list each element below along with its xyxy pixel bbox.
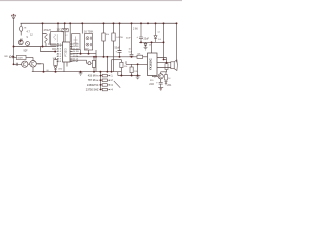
junction (119.5,23.3) — [119, 22, 121, 24]
junction (80.5,71.7) — [80, 71, 82, 73]
svg-text:92F: 92F — [24, 49, 29, 52]
capacitor C8 50uF — [118, 23, 122, 57]
junction (131.5,23.3) — [131, 22, 133, 24]
resistor R8 — [130, 67, 133, 73]
wire pin row 53.5 — [70, 53, 96, 55]
svg-text:220/: 220/ — [149, 83, 154, 86]
svg-text:16 700K: 16 700K — [84, 30, 94, 33]
junction (148,23.3) — [147, 22, 149, 24]
wire vert x65 lower — [64, 32, 66, 42]
wire vert x58 — [57, 23, 59, 31]
transistor Q1 — [18, 40, 23, 45]
capacitor C2 left — [11, 55, 13, 58]
arrowheads outputs — [109, 75, 111, 91]
resistor R11 — [165, 75, 168, 80]
junction (82.3,23.3) — [81, 22, 83, 24]
svg-text:50uF: 50uF — [115, 46, 121, 49]
junction (42.5,46.5) — [42, 46, 44, 48]
box section B — [84, 34, 92, 50]
junction (141,23.3) — [140, 22, 142, 24]
IC U1 body — [63, 42, 71, 62]
junction (119.5,56.8) — [119, 56, 121, 58]
svg-text:+x: +x — [65, 35, 67, 37]
box section A — [72, 34, 80, 50]
svg-text:2 66: 2 66 — [133, 28, 138, 31]
wire vert x70 — [69, 23, 71, 42]
wire vert x176 — [176, 23, 178, 62]
junction (121.4,75.5) — [120, 75, 122, 77]
junction (141,42.3) — [140, 41, 142, 43]
IC U1 right pin wires — [70, 44, 73, 62]
LED D3 — [165, 80, 167, 85]
ground below rail2 — [136, 77, 140, 79]
capacitor C10 20uF — [139, 23, 143, 42]
speaker LS1 — [171, 62, 174, 69]
svg-text:0.1/2W: 0.1/2W — [116, 37, 123, 39]
junction (100.4,71.7) — [99, 71, 101, 73]
battery ground dot — [160, 88, 161, 89]
junction (42.5,23.3) — [42, 22, 44, 24]
junction (55.5,71.7) — [55, 71, 57, 73]
junction (100.4,89.5) — [100, 89, 102, 91]
capacitor C9 — [130, 23, 134, 57]
junction (13.5,56.8) — [13, 56, 15, 58]
junction (166.5,62.6) — [166, 62, 168, 64]
junction (70.2,23.3) — [69, 22, 71, 24]
wire box A drop — [80, 50, 82, 54]
wire IC1 bottom b — [66, 62, 68, 67]
junction (13.5,46.5) — [13, 46, 15, 48]
IC U2 right pins — [157, 58, 167, 68]
svg-text:160H: 160H — [17, 58, 23, 60]
antenna ANT1 — [11, 14, 15, 19]
junction (107.4,56.8) — [107, 56, 109, 58]
junction (131.6,75.5) — [131, 75, 133, 77]
trimpot RV1 — [88, 62, 91, 65]
resistor R6 — [112, 33, 115, 41]
transistor Q5 — [158, 74, 163, 79]
junction (93.3,71.7) — [93, 71, 95, 73]
table output numbers — [111, 74, 113, 92]
trimmer VC1 — [26, 42, 30, 46]
svg-text:23750 5HZ: 23750 5HZ — [86, 87, 99, 91]
junction (176.5,23.3) — [176, 22, 178, 24]
junction (80.5,53.7) — [80, 53, 82, 55]
wire row 64.3 — [126, 63, 148, 65]
wire top supply bus — [21, 22, 177, 24]
junction dots — [13, 14, 178, 91]
wire rail link — [117, 72, 119, 76]
junction (100.4,80.2) — [100, 79, 102, 81]
IF can box — [51, 32, 64, 46]
ground below zener — [144, 48, 148, 50]
svg-text:YX1610C: YX1610C — [149, 58, 153, 70]
junction (13.5,64.3) — [13, 63, 15, 65]
resistor R9 32k — [137, 55, 143, 58]
capacitor C3 — [14, 63, 22, 66]
svg-text:261: 261 — [167, 84, 172, 87]
IC pin labels left — [57, 42, 62, 63]
svg-text:2450M 5rt: 2450M 5rt — [87, 83, 99, 87]
resistor R4 + LED D4 — [54, 60, 57, 66]
svg-text:40uF: 40uF — [126, 37, 131, 39]
transistor Q3 — [30, 61, 37, 68]
ground symbol mid — [79, 73, 83, 75]
svg-text:20uF: 20uF — [144, 38, 150, 41]
wire vert x111 — [111, 60, 113, 72]
out row 4 — [100, 89, 108, 91]
out row 3 — [100, 84, 108, 86]
inductor L2 160H box — [17, 55, 27, 59]
svg-text:m: m — [24, 27, 26, 30]
wire into IC rows — [14, 46, 57, 48]
svg-text:787 M ue: 787 M ue — [88, 78, 99, 82]
wire vert x42 — [42, 23, 44, 46]
svg-text:LED: LED — [58, 69, 62, 71]
junction (88.5,53.7) — [88, 53, 90, 55]
svg-text:10k: 10k — [106, 34, 109, 36]
wire vert x163 — [163, 23, 165, 59]
junction (20.6,41) — [20, 40, 22, 42]
junction (155.5,23.3) — [155, 22, 157, 24]
junction (96,60.2) — [95, 56, 97, 58]
junction (55.2,51.5) — [54, 51, 56, 53]
junction (113.5,23.3) — [113, 22, 115, 24]
junction (137.6,64.3) — [137, 63, 139, 65]
junction (163.5,59.5) — [163, 59, 165, 61]
svg-text:10 o2: 10 o2 — [73, 61, 79, 63]
transistor Q2 — [22, 61, 28, 67]
wire row 42.3 — [139, 41, 164, 43]
crystal Y1 — [62, 29, 68, 32]
IC U2 body — [148, 53, 158, 76]
wire pin row 56.8 — [70, 56, 137, 58]
wire vert x81 — [81, 23, 83, 33]
svg-text:12k: 12k — [134, 71, 137, 73]
svg-text:PT2272: PT2272 — [65, 48, 67, 57]
junction (111.5,71.7) — [111, 71, 113, 73]
svg-text:32k: 32k — [137, 54, 140, 56]
junction (107.4,71.7) — [107, 71, 109, 73]
plus marks rows — [101, 74, 103, 90]
junction (163.5,23.3) — [163, 22, 165, 24]
switch diagonal — [114, 81, 120, 88]
junction (100.4,75.6) — [100, 75, 102, 77]
svg-text:10C: 10C — [57, 29, 62, 32]
border frame top — [0, 0, 182, 1]
wire vert x64.7 — [64, 23, 66, 28]
svg-text:42: 42 — [21, 39, 23, 41]
wire antenna down — [13, 20, 15, 64]
capacitor C12 220u — [159, 82, 163, 87]
antenna tip dot — [13, 14, 14, 15]
table row texts — [86, 74, 99, 92]
zener D2 — [144, 42, 147, 47]
resistor R7 12k — [120, 62, 123, 67]
wire pin row 60 — [70, 60, 88, 63]
junction (151.5,42.3) — [151, 41, 153, 43]
ground rail right — [118, 75, 141, 77]
resistor R5 — [102, 33, 105, 41]
svg-text:433 M fm: 433 M fm — [88, 74, 99, 78]
junction (64.7,23.3) — [64, 22, 66, 24]
junction (94,56.8) — [93, 56, 95, 58]
junction (103.5,23.3) — [103, 22, 105, 24]
wire row 59.7 — [112, 59, 122, 61]
out row 2 — [100, 79, 108, 81]
ground battery — [158, 88, 163, 91]
junction (100.4,84.9) — [100, 84, 102, 86]
junction (137.6,75.5) — [137, 75, 139, 77]
wire vert x107 — [106, 57, 108, 72]
junction (103.5,56.8) — [103, 56, 105, 58]
junction (58,23.3) — [57, 22, 59, 24]
junction (163.5,42.3) — [163, 41, 165, 43]
ground rail left — [32, 71, 122, 73]
wire box B drop — [88, 50, 90, 54]
wire vert x137.6 — [137, 64, 139, 75]
wire IC1 bottom a — [63, 62, 65, 72]
wire IC2 to Q5 base — [152, 75, 158, 78]
junction (131.5,56.8) — [131, 56, 133, 58]
labels — [4, 27, 172, 87]
diode D1 — [154, 23, 157, 42]
svg-text:12k: 12k — [124, 66, 127, 68]
svg-text:92F: 92F — [4, 56, 8, 58]
junction (43.5,71.7) — [43, 71, 45, 73]
wire vert x96 — [95, 50, 97, 72]
inductor L1 — [20, 26, 23, 31]
wire stub x126 — [125, 61, 127, 64]
coil T1 — [45, 34, 47, 44]
IC pin labels right — [73, 44, 80, 64]
table vertical wire — [99, 72, 101, 90]
wire vert x151 to IC2 — [151, 42, 153, 53]
svg-text:470uH: 470uH — [44, 29, 52, 32]
resistor R10 — [165, 64, 168, 70]
svg-text:2-: 2- — [154, 75, 156, 78]
out row 1 — [100, 75, 108, 77]
